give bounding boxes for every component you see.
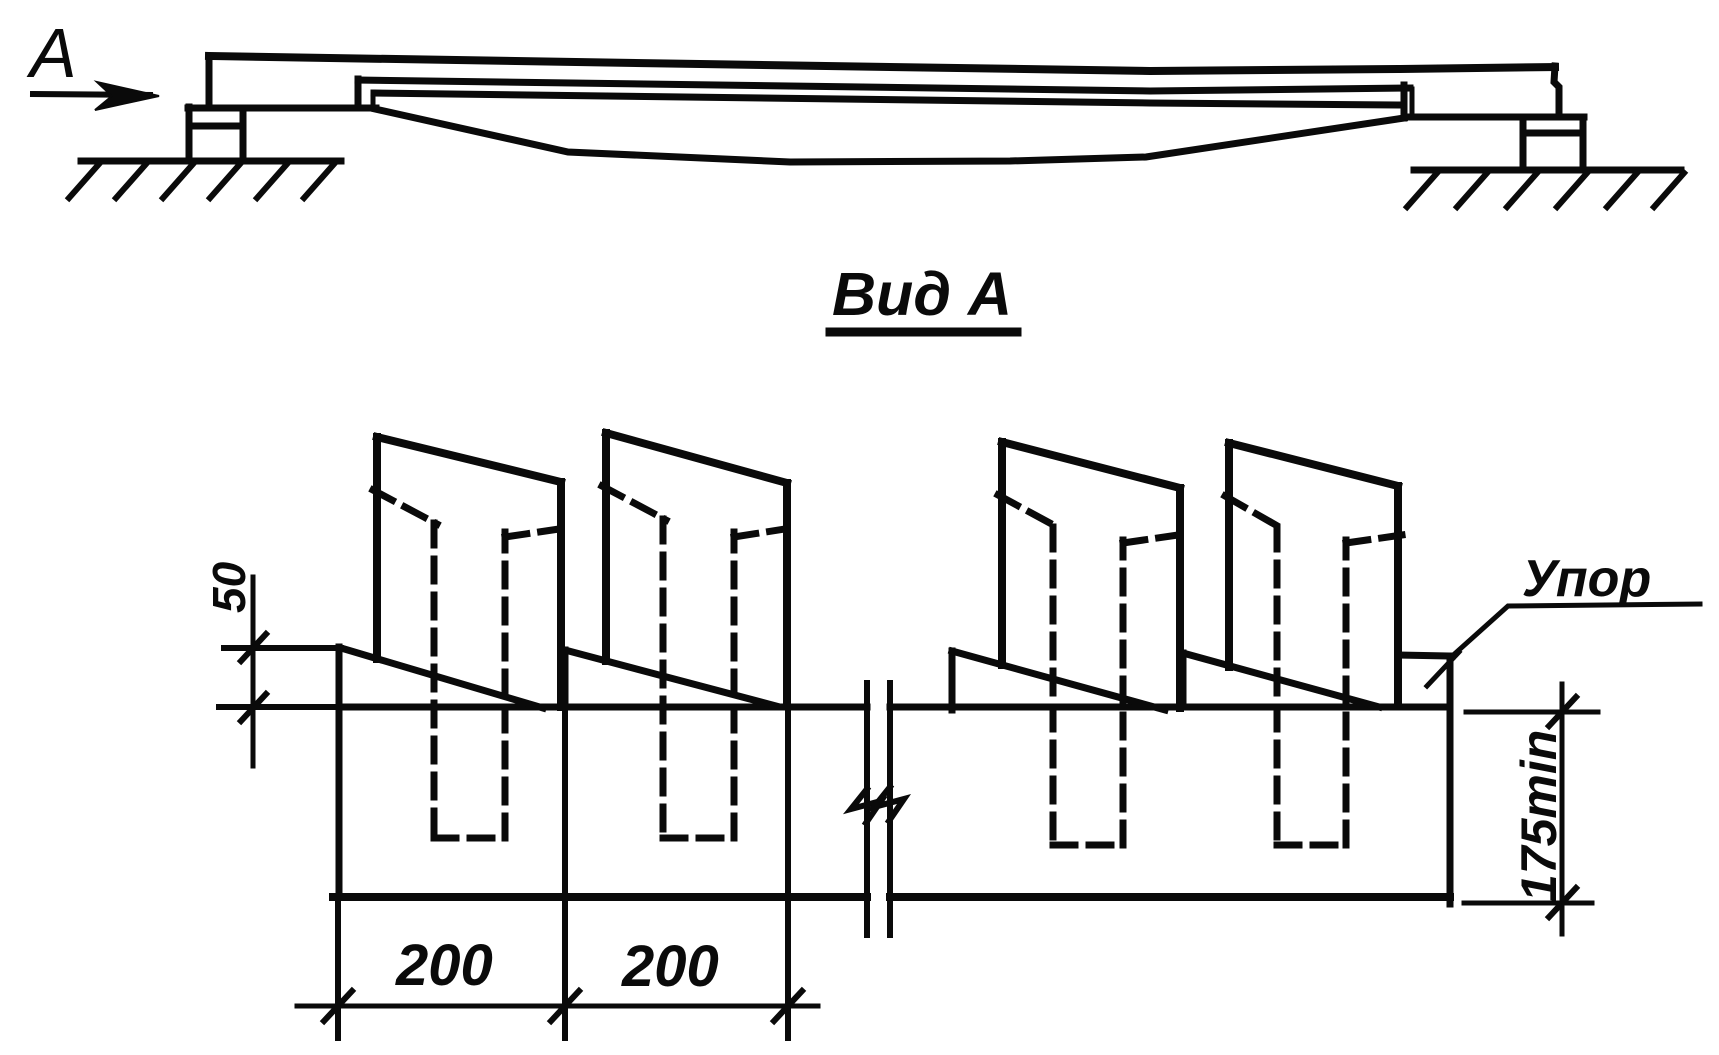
beam plate 2 left edge: [602, 433, 610, 661]
left ground hatches: [69, 164, 334, 198]
dim 175min dimension line: [1560, 684, 1565, 934]
dim 200 dimension line: [297, 1004, 818, 1009]
dim 175min bottom tick: [1549, 888, 1576, 917]
girder left end edge: [355, 79, 362, 108]
right bearing block: [1520, 117, 1527, 170]
deck bottom line left: [188, 105, 376, 112]
base bottom line right of break: [890, 893, 1450, 901]
beam plate 2 right edge: [783, 483, 791, 706]
break line left zigzag: [851, 789, 881, 823]
beam plate 4 right edge: [1394, 486, 1402, 706]
dim 50 lower extension line: [219, 704, 339, 710]
beam plate 3 top edge: [1002, 442, 1180, 488]
wedge seat 1 slope: [341, 648, 543, 708]
break line left: [864, 683, 870, 935]
dim 175min top extension line: [1466, 710, 1598, 715]
deck top line: [209, 56, 1555, 71]
wedge seat 1 top extension: [224, 645, 341, 651]
svg-text:A: A: [26, 14, 77, 92]
deck right edge: [1554, 66, 1559, 117]
wedge seat 4 riser: [1180, 653, 1187, 707]
beam plate 1 top edge: [377, 437, 561, 482]
svg-text:Вид А: Вид А: [832, 260, 1012, 328]
base right edge: [1447, 656, 1454, 904]
dim 200 extension line 3: [785, 706, 791, 1038]
svg-text:200: 200: [395, 933, 493, 998]
base left edge: [336, 647, 343, 897]
beam plate 2 top edge: [606, 433, 787, 483]
beam plate 3 left edge: [998, 442, 1006, 665]
beam plate 3 right edge: [1176, 488, 1184, 708]
dim 200 extension line 2: [562, 707, 568, 1038]
right ground hatches: [1407, 173, 1684, 207]
wedge seat 4 slope: [1183, 653, 1379, 707]
svg-text:Упор: Упор: [1522, 550, 1651, 608]
break line right: [887, 683, 893, 935]
title underline: [830, 328, 1017, 337]
slab soffit line: [374, 93, 1401, 105]
hidden T-rib plate 1: [373, 490, 559, 838]
view direction arrow: [33, 94, 150, 95]
dim 200 tick 2: [551, 991, 579, 1021]
break line right zigzag: [874, 787, 904, 821]
girder right end edge: [1401, 85, 1408, 118]
beam plate 4 left edge: [1225, 443, 1233, 667]
deck left edge: [206, 58, 213, 108]
left bearing block: [186, 107, 193, 161]
hidden T-rib plate 3: [998, 495, 1178, 845]
label Упор leader tick: [1427, 652, 1459, 686]
girder left end inner edge: [371, 92, 376, 107]
wedge seat 3 slope: [952, 651, 1165, 710]
wedge seat 3 riser: [949, 651, 956, 710]
girder right end inner edge: [1410, 89, 1415, 112]
hidden T-rib plate 2: [602, 486, 785, 838]
wedge seat 2 riser: [562, 650, 569, 707]
stop block top (упор): [1398, 655, 1452, 656]
label Упор leader line: [1450, 604, 1700, 658]
dim 50 dimension line: [251, 577, 256, 766]
svg-text:50: 50: [203, 561, 255, 613]
base top line right of break: [890, 704, 1450, 711]
dim 175min bottom extension line: [1464, 901, 1592, 906]
dim 175min top tick: [1549, 697, 1576, 726]
deck bottom line right: [1404, 114, 1584, 121]
dim 200 extension line 1: [335, 897, 341, 1038]
dim 200 tick 3: [774, 991, 802, 1021]
girder bottom haunched line: [375, 109, 1404, 162]
hidden T-rib plate 4: [1225, 496, 1402, 845]
left ground line: [81, 158, 341, 165]
base bottom line left of break: [333, 893, 867, 901]
wedge seat 2 slope: [565, 650, 776, 706]
dim 50 lower tick: [241, 694, 266, 721]
dim 50 upper tick: [241, 634, 266, 661]
base top line left of break: [339, 704, 867, 711]
dim 200 tick 1: [324, 991, 352, 1021]
beam plate 4 top edge: [1229, 443, 1398, 486]
beam plate 1 right edge: [557, 482, 565, 707]
beam plate 1 left edge: [373, 437, 381, 659]
girder top line: [358, 80, 1410, 91]
svg-text:200: 200: [621, 934, 719, 999]
right ground line: [1414, 167, 1681, 174]
svg-text:175min: 175min: [1511, 730, 1567, 902]
